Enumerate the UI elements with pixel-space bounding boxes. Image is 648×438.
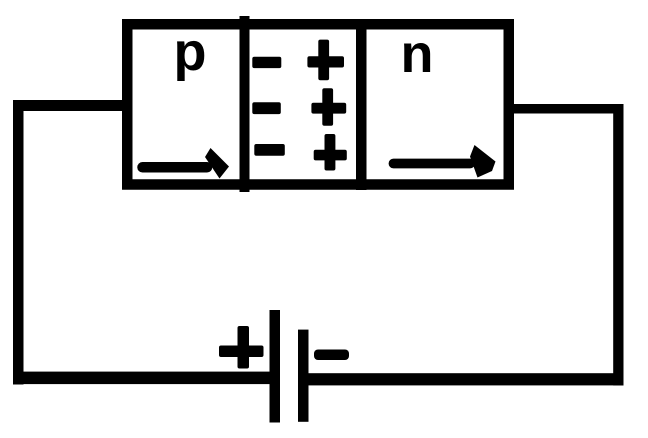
svg-text:p: p [174,22,207,82]
svg-text:n: n [401,24,434,84]
